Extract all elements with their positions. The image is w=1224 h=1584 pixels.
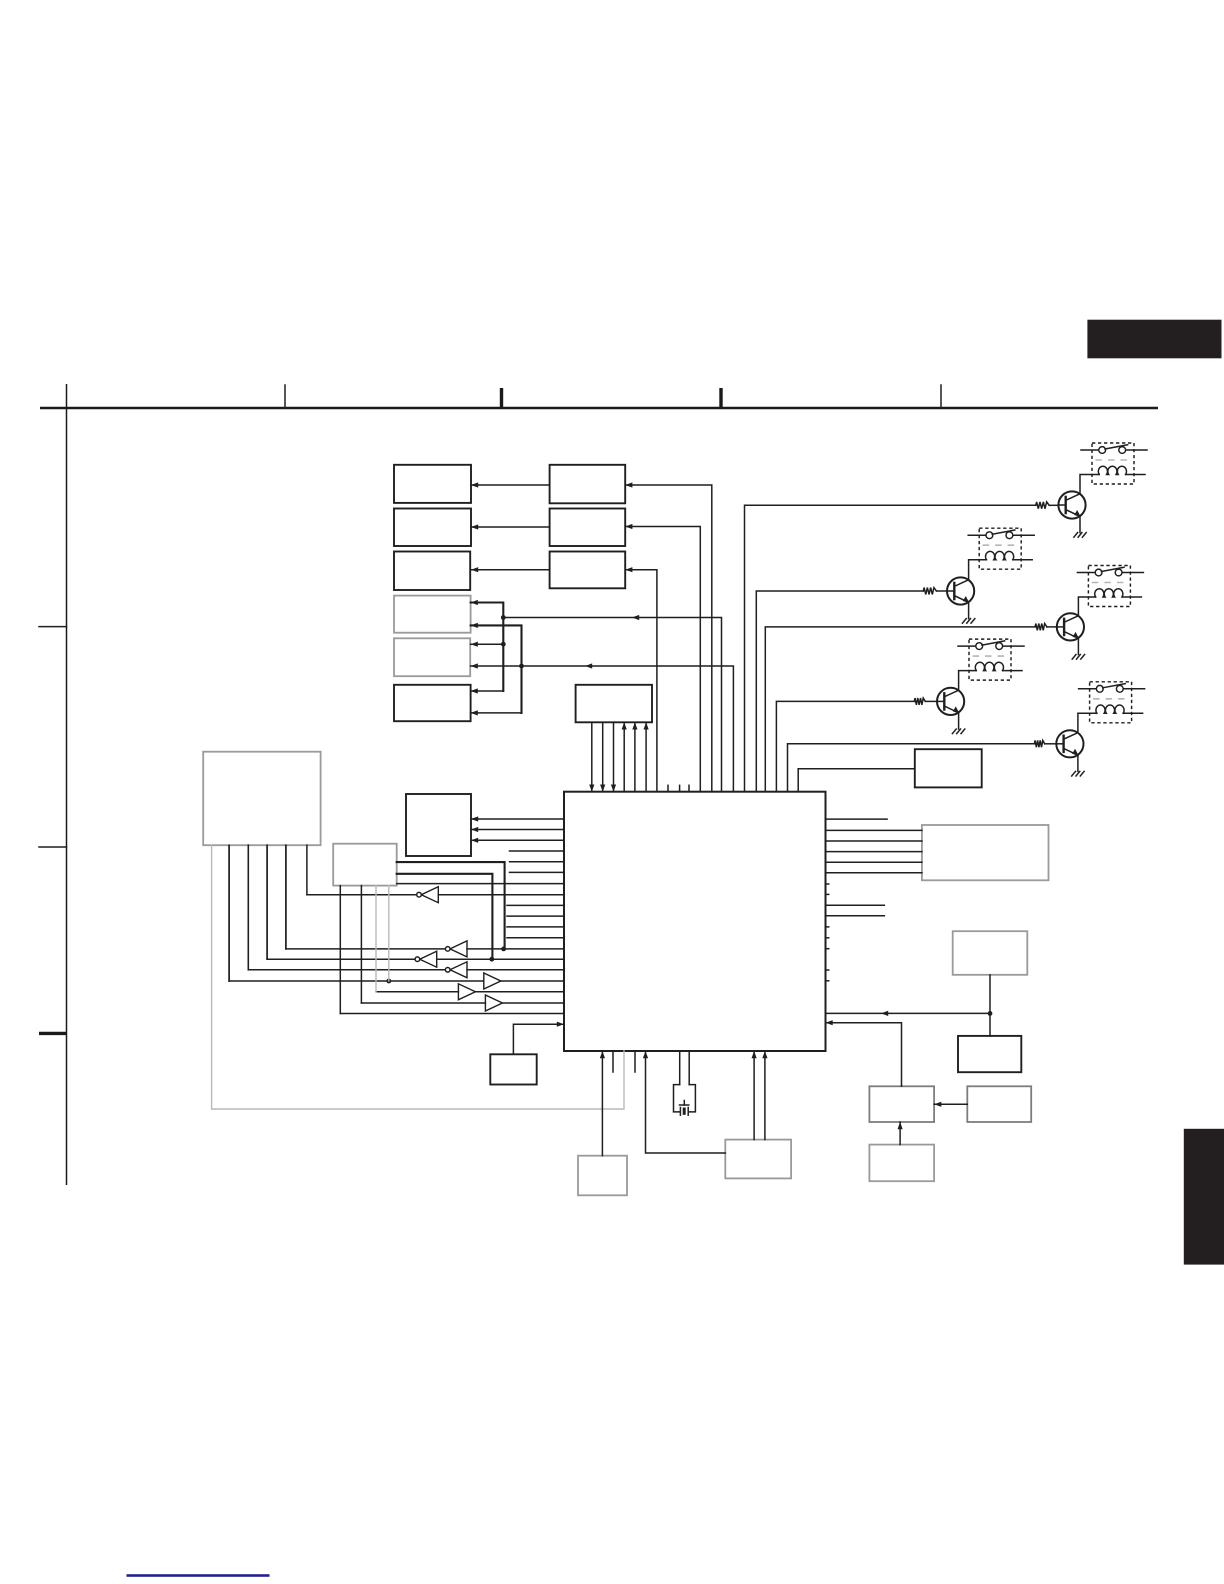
wire B5 lower long [471,666,734,792]
pin stub IC left [507,937,564,939]
wire IC to B4 upper [471,603,504,692]
wire IC to Q4 [776,701,914,791]
block B5 [394,638,470,676]
block OSC (above IC) [576,685,652,723]
relay RY2 [968,528,1034,569]
block B3 [394,552,470,591]
wire B4 lower [471,625,522,713]
block LB1 [578,1156,627,1196]
wire OSC in [634,722,636,791]
pin nub IC right [826,969,829,971]
wire IC to RB1 [826,829,922,831]
resistor R3 [1035,624,1047,631]
inverter INV4 [450,962,467,978]
wire IC to RB1 [826,861,922,863]
relay RY3 [1077,566,1143,607]
wire bus to IC pin (long, y618) [503,618,721,792]
block KEY (gray) [333,844,397,886]
wire plain line [340,1013,564,1015]
pin stub IC right [826,904,885,906]
wire LCD gray route [212,845,624,1109]
resistor R4 [914,698,925,705]
wire IC to TB [798,769,915,792]
pin stub IC bottom [612,1051,614,1072]
wire IC to BUF 1 [471,818,564,820]
wire LCD p2 [228,845,230,981]
wire LCD p4 [266,845,268,959]
wire buffer line 3 [361,1002,485,1004]
wire BA to B1 [471,484,550,486]
wire OSC out [613,722,615,791]
wire KEY right b [397,874,493,959]
pin nub IC right [826,926,829,928]
wire OSC out [602,722,604,791]
pin nub IC right [826,948,829,950]
buffer BUF3 [485,995,502,1011]
wire KEY right a [397,862,505,949]
pin nub IC right [826,980,829,982]
block RB4 [869,1086,934,1122]
wire collector Q4 [959,671,977,691]
pin stub IC left [507,904,564,906]
pin stub IC top [667,785,669,791]
ground [1072,655,1076,660]
pin stub IC left [507,926,564,928]
pin stub IC left [510,850,565,852]
block RB6 [869,1145,934,1182]
wire emitter Q1 [1079,516,1081,532]
wire B6 lower [471,712,522,714]
wire LB1 to IC [601,1051,603,1156]
transistor Q5 [1056,730,1083,757]
wire LB2 to IC a [753,1051,755,1140]
wire IC to BA [625,485,712,792]
wire collector Q1 [1080,475,1099,494]
wire RB2 to RB3 [989,975,991,1036]
wire IC to BB [625,527,700,792]
block RB5 [967,1086,1031,1122]
inverter INV1 [421,887,438,903]
wire KEY pin d [388,886,390,981]
block LB2 [725,1140,791,1179]
pin nub IC right [826,893,829,895]
wire RST to IC [513,1024,564,1054]
wire BB to B2 [471,526,550,528]
pin stub IC bottom [634,1051,636,1072]
buffer BUF2 [458,984,475,1000]
pin stub IC left [510,861,565,863]
wire KEY pin b [360,886,362,1003]
relay RY4 [958,639,1024,680]
wire B6 upper [471,690,504,692]
wire BC to B3 [471,569,550,571]
pin stub IC left [510,871,565,873]
wire IC to Q5 [788,744,1035,792]
ground [1072,771,1076,776]
wire inverter line 1 [438,894,564,896]
wire buffer line 1 [229,980,484,982]
block RB2 [953,931,1028,975]
wire IC to KEY [397,883,564,885]
relay RY1 [1081,443,1147,484]
wire RB2 node to IC [826,1012,991,1014]
ground [962,619,966,624]
wire buffer line 2 [376,991,458,993]
wire emitter Q5 [1077,755,1079,771]
wire emitter Q4 [958,713,960,729]
pin nub IC right [826,937,829,939]
block B2 [394,509,471,547]
wire inverter line 4 [467,969,564,971]
wire IC to BUF 3 [471,839,564,841]
wire IC to RB1 [826,872,922,874]
resistor R5 [1034,740,1044,747]
transistor Q2 [947,577,974,604]
wire emitter Q3 [1077,638,1079,654]
wire LCD p5 [285,845,287,949]
wire RB4 to IC [826,1023,902,1087]
block RB3 [958,1036,1021,1072]
wire collector Q3 [1078,597,1095,616]
wire collector Q5 [1078,713,1097,732]
crystal X1 [674,1051,696,1115]
block RB1 (right of IC) [922,825,1049,880]
microcontroller IC U1 [564,792,826,1051]
wire IC to BUF 2 [471,829,564,831]
wire OSC in [645,722,647,791]
pin stub IC top [679,785,681,791]
wire OSC in [623,722,625,791]
block BB [550,509,626,547]
block RST (below IC) [490,1054,536,1084]
pin nub IC right [826,883,829,885]
transistor Q1 [1058,491,1085,518]
wire RB5 to RB4 [934,1103,967,1105]
wire IC to Q1 [745,505,1036,791]
wire IC to BC [625,570,657,792]
wire IC to Q2 [756,591,923,792]
ground [952,729,956,734]
transistor Q4 [937,688,964,715]
block BA [550,465,626,504]
resistor R1 [1036,502,1049,509]
buffer BUF1 [484,973,501,989]
block BC [550,552,626,589]
pin stub IC right [826,818,888,820]
pin stub IC left [507,915,564,917]
block TB [915,749,982,787]
wire RB6 to RB4 [899,1122,901,1145]
transistor Q3 [1057,613,1084,640]
wire LB2 to IC left [646,1051,726,1153]
wire inverter line 3 [437,958,564,960]
wire collector Q2 [969,560,987,580]
wire KEY pin a [339,886,341,1014]
wire IC to RB1 [826,851,922,853]
wire inverter line 2 [467,948,564,950]
wire emitter Q2 [968,602,970,618]
pin stub IC right [826,915,885,917]
wire IC to Q3 [765,627,1035,792]
relay RY5 [1079,682,1145,723]
ground [1074,533,1078,538]
block B4 [394,596,471,633]
wire IC to RB1 [826,840,922,842]
block BUF [406,794,471,856]
block B1 [394,465,471,503]
wire LCD p3 [247,845,249,970]
inverter INV2 [450,941,467,957]
resistor R2 [923,588,936,595]
inverter INV3 [420,951,437,967]
large block LCD [203,752,320,846]
pin stub IC top [688,785,690,791]
wire OSC out [591,722,593,791]
wire KEY pin c [375,886,377,992]
block B6 [394,685,471,721]
wire B5 upper [471,643,504,645]
wire LB2 to IC b [764,1051,766,1140]
